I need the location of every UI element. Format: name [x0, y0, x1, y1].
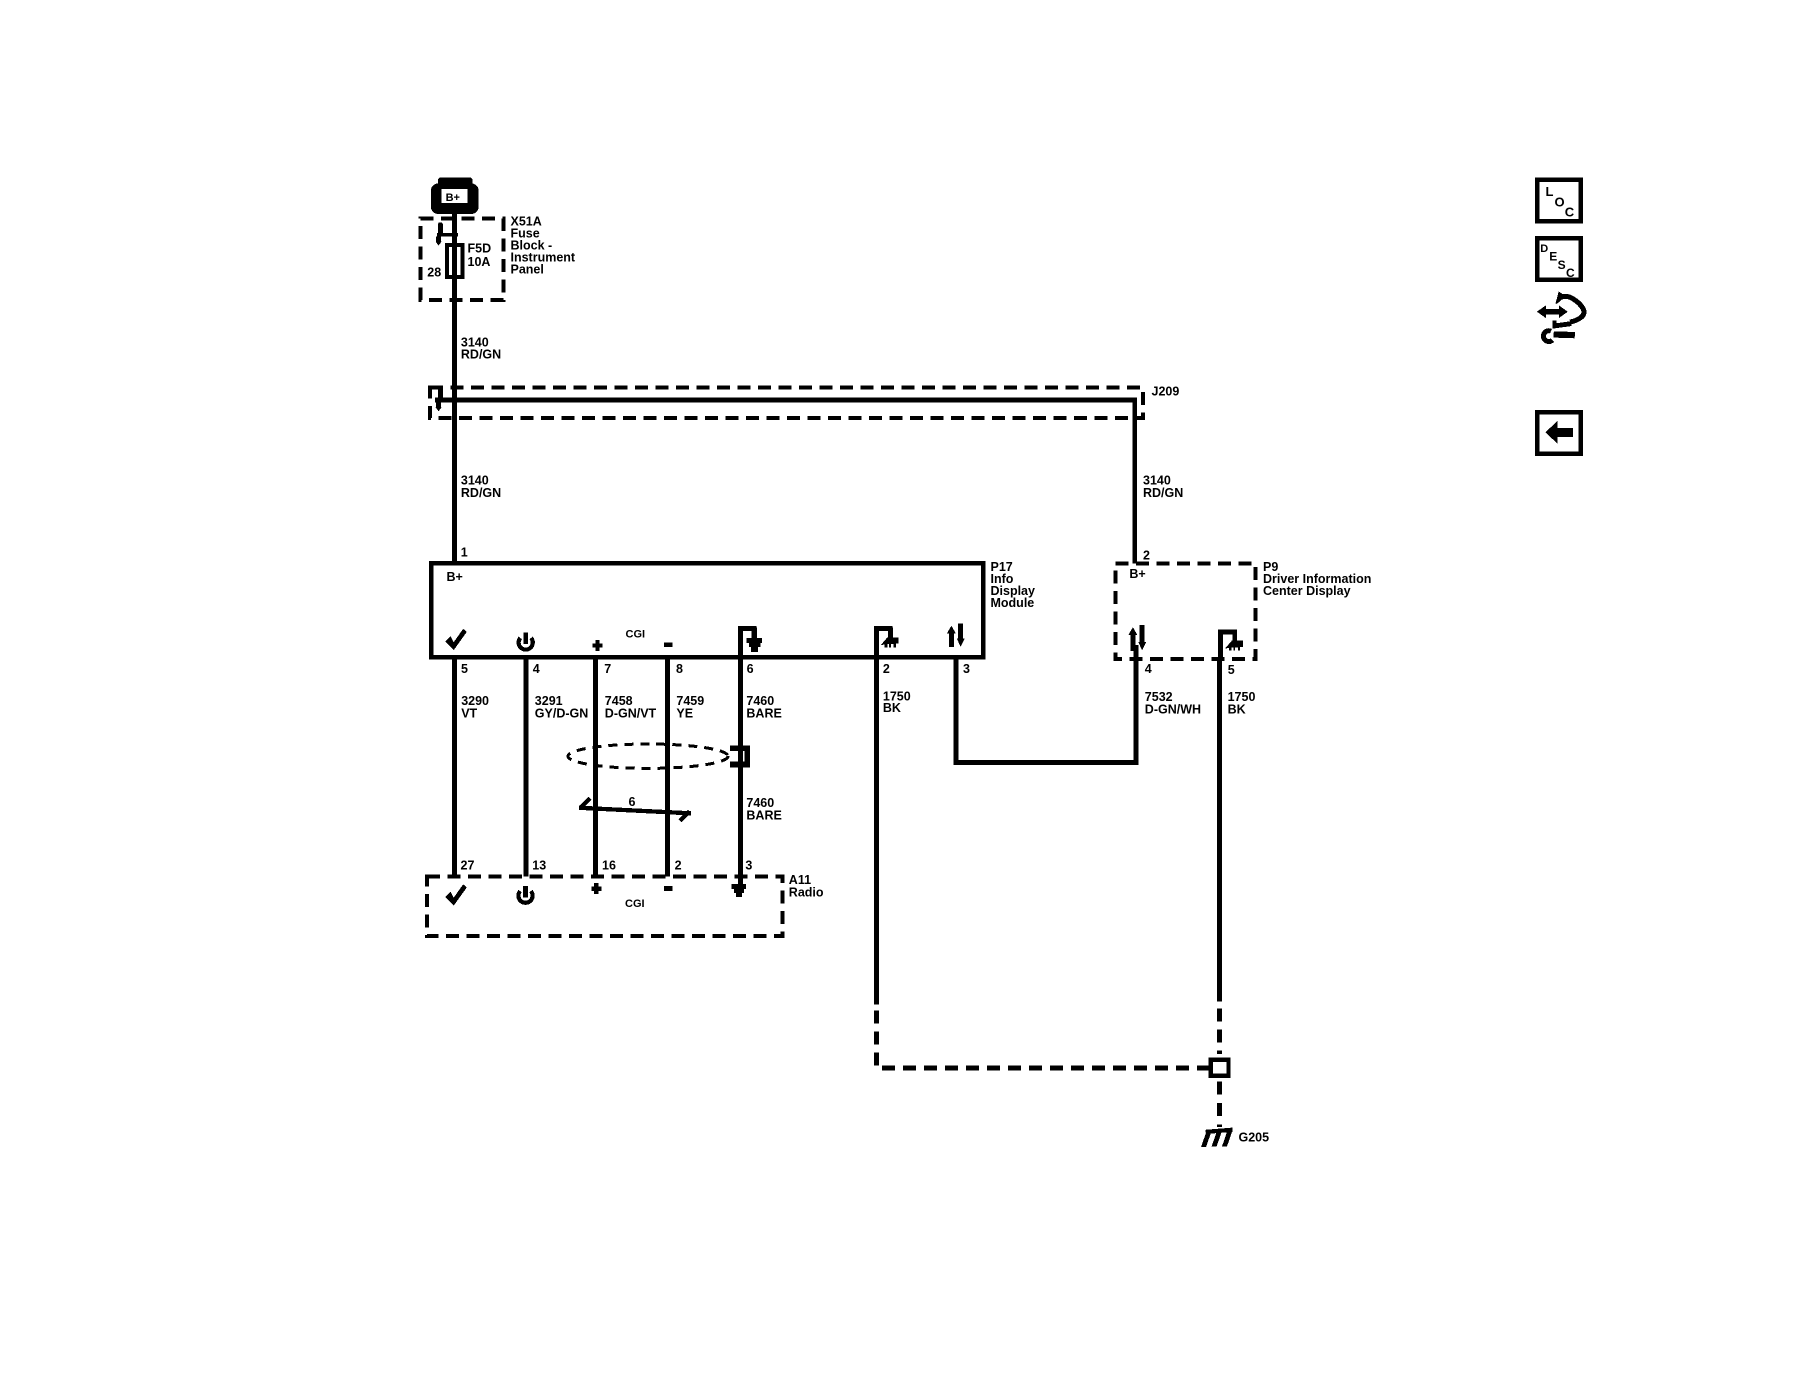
junction block J209 dashed box: [430, 388, 1143, 418]
wire 7460 BARE drain (pin 6): [738, 655, 743, 884]
svg-text:D: D: [1540, 243, 1548, 255]
svg-text:4: 4: [533, 662, 540, 676]
svg-text:6: 6: [747, 662, 754, 676]
wire 7459 YE (pin 8): [665, 655, 670, 877]
svg-text:13: 13: [532, 859, 546, 873]
splice tap symbol in fuse block: [436, 223, 459, 246]
A11 icon: power symbol: [518, 886, 532, 903]
P17 icon: plus: [592, 640, 602, 651]
P17 icon: checkmark: [445, 629, 467, 650]
svg-text:E: E: [1549, 249, 1557, 263]
svg-text:BARE: BARE: [746, 706, 781, 720]
P17 icon: minus: [664, 642, 673, 647]
svg-text:Panel: Panel: [511, 263, 544, 277]
shield bracket to drain wire 6: [730, 748, 747, 764]
svg-text:7: 7: [604, 662, 611, 676]
P17 icon: hook with brush arrow (pin 2): [874, 626, 899, 660]
wire 1750 BK from P9 pin 5 solid: [1217, 661, 1222, 1002]
A11 icon: checkmark: [445, 884, 467, 905]
svg-text:BARE: BARE: [746, 808, 781, 822]
twisted pair arrow with label 6: [579, 797, 691, 822]
svg-text:10A: 10A: [468, 255, 491, 269]
shield ellipse (dashed) around wires 7 and 8: [568, 744, 728, 768]
svg-text:2: 2: [1143, 548, 1150, 562]
svg-text:3: 3: [745, 859, 752, 873]
svg-text:Module: Module: [991, 596, 1035, 610]
wire 1750 BK (pin 2) solid part: [874, 655, 879, 1005]
svg-text:RD/GN: RD/GN: [1143, 486, 1183, 500]
P9 icon: up-down serial data arrows (pin 4): [1128, 625, 1146, 651]
svg-text:BK: BK: [1228, 702, 1246, 716]
svg-text:Center Display: Center Display: [1263, 584, 1351, 598]
svg-text:GY/D-GN: GY/D-GN: [535, 706, 588, 720]
svg-text:VT: VT: [461, 706, 477, 720]
back arrow button: [1537, 412, 1580, 454]
DESC button: [1537, 238, 1580, 280]
svg-text:B+: B+: [447, 570, 463, 584]
splice symbol in J209: [436, 387, 459, 411]
P9 icon: hook with brush arrow (pin 5): [1218, 629, 1243, 660]
svg-text:Radio: Radio: [789, 886, 824, 900]
svg-text:RD/GN: RD/GN: [461, 486, 501, 500]
svg-text:C: C: [1566, 266, 1575, 280]
svg-text:CGI: CGI: [625, 898, 645, 910]
svg-text:1: 1: [461, 546, 468, 560]
battery B+ terminal: [431, 177, 479, 214]
svg-text:B+: B+: [446, 192, 460, 204]
A11 icon: minus: [664, 886, 673, 891]
svg-text:4: 4: [1145, 662, 1152, 676]
LOC button: [1537, 180, 1580, 222]
svg-text:CGI: CGI: [626, 629, 646, 641]
fuse block X51A dashed box: [421, 218, 504, 300]
wire 7532 D-GN/WH (pin 3) down, right, up to P9 pin 4: [954, 655, 959, 765]
P17 icon: power symbol: [519, 633, 533, 650]
svg-text:B+: B+: [1129, 567, 1145, 581]
A11 icon: plus: [591, 883, 601, 894]
dashed wire below ring terminal: [1217, 1082, 1222, 1128]
wire 7458 D-GN/VT (pin 7): [593, 655, 598, 877]
wire battery feed to P17 pin 1 (3140 RD/GN): [452, 211, 457, 564]
A11 Radio dashed box: [427, 877, 782, 937]
svg-text:16: 16: [602, 859, 616, 873]
ground run: wire 1750 BK dashed from P17 pin 2: [876, 1011, 1208, 1068]
wire 3291 GY/D-GN (pin 4): [524, 655, 529, 877]
svg-text:J209: J209: [1152, 384, 1180, 398]
svg-text:O: O: [1555, 195, 1565, 210]
fuse F5D 10A: [445, 243, 465, 279]
svg-text:2: 2: [675, 859, 682, 873]
svg-text:28: 28: [427, 266, 441, 280]
svg-text:C: C: [1565, 205, 1575, 220]
A11 drain wire termination (pin 3): [732, 884, 747, 897]
svg-text:8: 8: [676, 662, 683, 676]
svg-text:F5D: F5D: [468, 242, 492, 256]
svg-text:2: 2: [883, 662, 890, 676]
svg-text:6: 6: [629, 795, 636, 809]
wire J209 down to P9 pin 2: [1132, 398, 1137, 564]
svg-text:D-GN/WH: D-GN/WH: [1145, 702, 1201, 716]
svg-text:L: L: [1546, 184, 1554, 199]
svg-text:5: 5: [1228, 663, 1235, 677]
svg-text:S: S: [1558, 258, 1566, 272]
wire 7532 stub P9 pin 4 into box: [1133, 645, 1138, 661]
svg-text:YE: YE: [676, 706, 693, 720]
P17 icon: hook with connector (pin 6): [738, 626, 762, 660]
ring terminal at G205: [1211, 1060, 1229, 1076]
svg-text:27: 27: [461, 859, 475, 873]
svg-text:D-GN/VT: D-GN/VT: [605, 706, 657, 720]
svg-text:G205: G205: [1239, 1131, 1270, 1145]
harness routing tool icon: [1537, 291, 1584, 341]
svg-text:BK: BK: [883, 701, 901, 715]
wire J209 horizontal run: [435, 398, 1137, 403]
svg-text:RD/GN: RD/GN: [461, 348, 501, 362]
P17 icon: up-down serial data arrows (pin 3): [947, 624, 965, 647]
svg-text:5: 5: [461, 662, 468, 676]
wire 1750 BK from P9 pin 5 dashed: [1217, 1009, 1222, 1055]
svg-text:3: 3: [963, 662, 970, 676]
wire 3290 VT (pin 5): [452, 655, 457, 877]
P9 Driver Information Center Display dashed box: [1116, 564, 1256, 660]
P17 Info Display Module box: [431, 563, 983, 657]
ground symbol G205: [1201, 1128, 1233, 1147]
